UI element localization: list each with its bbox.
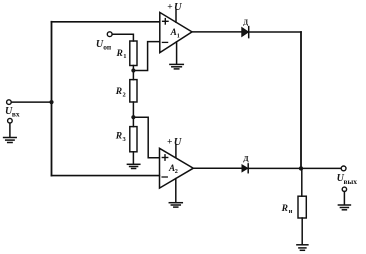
wire A2 ground stub (175, 179, 177, 203)
ground at Rн (297, 245, 308, 251)
label A2 (168, 163, 178, 175)
wire Rн bottom to ground (301, 218, 303, 244)
ground at A2 (169, 203, 182, 207)
wire R1 bottom to R2 top (132, 66, 134, 80)
ground at Uвых (338, 205, 350, 210)
terminal Uвых ground side (342, 187, 346, 191)
svg-text:вых: вых (344, 177, 358, 186)
op-amp A1 (160, 12, 192, 52)
wire A2 output (193, 167, 242, 169)
wire R3 bottom to ground (132, 152, 134, 164)
wire A1 output (192, 31, 242, 33)
node R1-R2 junction (131, 68, 135, 72)
resistor R3 (130, 127, 137, 152)
svg-text:1: 1 (177, 32, 180, 39)
svg-text:2: 2 (175, 168, 178, 175)
ground at Uвх (4, 138, 17, 143)
terminal Uвх ground side (8, 118, 13, 123)
terminal Uвых (341, 166, 346, 171)
svg-text:2: 2 (123, 91, 126, 98)
resistor Rн (298, 196, 306, 218)
label Uвых (337, 173, 358, 186)
svg-text:+: + (167, 3, 172, 13)
wire +U stub A2 (175, 145, 177, 158)
diode Д bottom (242, 164, 248, 173)
terminal Uоп (107, 32, 112, 37)
svg-text:вх: вх (12, 110, 20, 119)
wire node to A2 noninverting input (135, 117, 159, 158)
svg-text:R: R (116, 49, 123, 59)
node Uвх bus junction (49, 100, 53, 104)
label Д bottom (243, 154, 249, 163)
diode Д top (242, 27, 249, 38)
label Uвх (5, 106, 20, 119)
wire to ground (343, 192, 345, 205)
resistor R1 (130, 41, 137, 66)
terminal Uвх (7, 100, 12, 105)
label Rн (281, 204, 293, 215)
svg-text:R: R (281, 204, 288, 214)
wire node to A1 inverting input (135, 42, 159, 71)
wire A1 ground stub (176, 42, 178, 64)
wire diode to right bus (249, 31, 301, 33)
svg-text:1: 1 (123, 53, 126, 60)
ground at R3 (127, 164, 139, 168)
label +U of A2 (167, 137, 183, 148)
op-amp A2 (160, 148, 194, 188)
wire bottom bus to A2 inverting input (52, 175, 160, 177)
label R1 (116, 49, 127, 60)
label Uоп (96, 39, 112, 51)
label +U of A1 (167, 2, 183, 13)
wire top bus to A1 noninverting input (52, 21, 160, 23)
wire diode to output node (249, 167, 341, 169)
label R3 (115, 132, 127, 143)
A1 plus input marker (163, 19, 168, 24)
resistor R2 (130, 80, 137, 102)
label Д top (243, 19, 248, 27)
wire right bus vertical (300, 32, 302, 168)
svg-text:R: R (115, 87, 122, 97)
label R2 (115, 87, 126, 98)
svg-text:+: + (167, 138, 172, 148)
wire Uоп to R1 top (112, 34, 133, 41)
wire left bus vertical (51, 22, 53, 176)
wire node to Rн top (301, 168, 303, 196)
A2 plus input marker (162, 155, 167, 160)
svg-text:Д: Д (243, 19, 248, 27)
ground at A1 (170, 64, 183, 69)
svg-text:н: н (289, 208, 293, 215)
A2 minus input marker (162, 176, 167, 178)
wire +U stub A1 (175, 10, 177, 22)
wire Uвх to bus (11, 101, 51, 103)
node R2-R3 junction (131, 115, 135, 119)
node output junction (299, 166, 303, 170)
A1 minus input marker (162, 41, 167, 43)
wire R2 bottom to R3 top (132, 102, 134, 127)
svg-text:A: A (170, 27, 177, 37)
svg-text:оп: оп (103, 42, 112, 51)
wire to ground (9, 123, 11, 137)
svg-text:R: R (115, 132, 122, 142)
svg-text:Д: Д (243, 154, 249, 163)
label A1 (170, 27, 180, 39)
